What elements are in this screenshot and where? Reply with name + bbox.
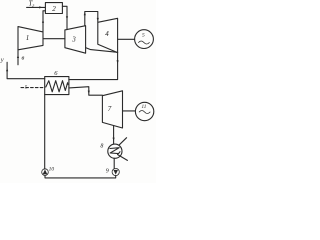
svg-text:1: 1 [26, 34, 30, 42]
wire feedwater riser pump 10 to HRSG [44, 95, 46, 169]
wire crossover turbine 3 to turbine 4 [84, 12, 99, 26]
HRSG coil zigzag [46, 81, 69, 92]
svg-text:9: 9 [106, 169, 109, 175]
combustion chamber box 2 [45, 3, 62, 14]
wire fuel inlet arrow into combustion chamber [27, 6, 46, 8]
generator 11 [135, 102, 153, 120]
pump 9 [112, 168, 119, 175]
wire compressor discharge to combustion chamber [42, 11, 46, 32]
wire shaft compressor to turbine 3 [43, 38, 65, 40]
svg-text:10: 10 [49, 166, 55, 172]
svg-text:7: 7 [108, 105, 112, 113]
wire shaft turbine 4 to generator 5 [118, 38, 135, 40]
wire heating water dashed line into HRSG [21, 86, 45, 91]
pump 10 [42, 169, 49, 176]
condenser 8 [108, 144, 122, 158]
wire condenser to pump 9 [113, 158, 115, 168]
wire steam line HRSG to steam turbine 7 [69, 87, 103, 96]
svg-text:4: 4 [105, 30, 109, 38]
turbine 3 [65, 26, 86, 54]
compressor 1 [18, 27, 43, 50]
wire cooling water outlet [118, 155, 128, 161]
svg-text:в: в [22, 55, 25, 62]
HRSG box 6 [45, 77, 69, 95]
svg-text:8: 8 [100, 143, 103, 149]
svg-text:у: у [0, 57, 4, 64]
wire cooling water inlet [119, 138, 126, 145]
svg-text:5: 5 [142, 33, 145, 39]
wire gas downcomer to HRSG [69, 53, 119, 80]
generator 5 [135, 30, 154, 49]
svg-text:11: 11 [142, 104, 147, 110]
wire shaft turbine 7 to generator 11 [123, 110, 136, 112]
wire air inlet [17, 50, 19, 65]
wire stack gas out [6, 62, 45, 78]
steam turbine 7 [102, 91, 122, 128]
wire combustion chamber outlet to turbine 3 [62, 6, 68, 29]
wire condensate bottom line pump 9 to pump 10 [45, 175, 116, 178]
turbine 4 [98, 18, 118, 52]
node Tг fuel inlet label [29, 0, 35, 9]
wire turbine 3 exhaust to gas downcomer [86, 48, 118, 53]
wire turbine 7 exhaust to condenser [113, 126, 115, 145]
svg-text:2: 2 [52, 5, 56, 13]
svg-text:3: 3 [71, 36, 76, 44]
